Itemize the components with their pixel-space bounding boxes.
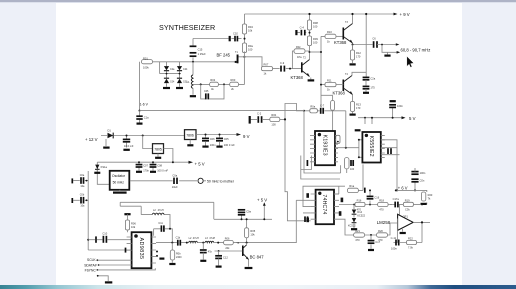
svg-text:Cn7: Cn7 <box>375 240 380 244</box>
wire inner loop with cap <box>301 156 340 180</box>
svg-text:R21: R21 <box>355 229 360 233</box>
svg-text:R01: R01 <box>143 56 148 60</box>
capacitor CB between dividers <box>350 160 355 171</box>
resistor R14 to ground <box>169 243 182 264</box>
capacitor C right electrolytic <box>389 101 403 119</box>
pins left 74HC74 <box>311 194 316 219</box>
mouse cursor <box>407 56 414 67</box>
oscillator module 50 MHz <box>110 171 130 190</box>
pins right K555IE2 <box>381 135 385 157</box>
wire divider input drop <box>345 111 347 148</box>
resistor R20 <box>377 229 388 242</box>
svg-text:47uH: 47uH <box>209 237 215 240</box>
inductor L2 47uH above AD9835 <box>152 209 170 229</box>
capacitor C19 to ground <box>200 243 213 261</box>
capacitor C06 output coupling <box>372 37 399 48</box>
diode D1 <box>108 129 114 139</box>
ground under Q2 emitter <box>308 79 315 81</box>
bottom status bar <box>0 285 516 289</box>
right side panel <box>462 3 516 285</box>
svg-text:10.0 mF: 10.0 mF <box>124 144 134 148</box>
resistor R21 <box>354 229 365 242</box>
wire K555 right loop <box>381 140 400 191</box>
svg-text:100n: 100n <box>210 143 216 147</box>
svg-text:7806: 7806 <box>186 134 194 138</box>
wire BF245 drain to R07 <box>239 51 263 84</box>
pins left AD9835 <box>127 237 132 250</box>
svg-text:OP1: OP1 <box>403 215 409 219</box>
svg-text:1-6 V: 1-6 V <box>140 103 149 107</box>
svg-text:10a: 10a <box>80 185 85 188</box>
capacitor C1b series <box>176 237 181 246</box>
svg-text:R08: R08 <box>313 21 318 25</box>
wire Q4 emitter down <box>352 95 354 102</box>
svg-text:C24: C24 <box>183 68 188 71</box>
resistor R04 <box>242 24 253 34</box>
svg-text:7.0k: 7.0k <box>408 246 414 250</box>
wire op-amp output node <box>413 222 430 242</box>
svg-text:C0b: C0b <box>80 194 85 197</box>
node SDATA <box>84 263 131 267</box>
svg-text:+ 6 V: + 6 V <box>398 185 408 190</box>
svg-text:100: 100 <box>313 40 318 44</box>
ground bar right of AD9835 <box>159 258 164 260</box>
node +6V label <box>396 185 408 191</box>
svg-text:C02: C02 <box>233 31 238 35</box>
capacitor C08 on 5V rail <box>150 161 169 172</box>
wire Q3 collector to rail <box>352 14 354 24</box>
resistor R18 <box>378 198 389 211</box>
wire 74HC74 outer loop <box>303 186 345 206</box>
wire tuning line to divider <box>140 110 305 112</box>
svg-text:R23: R23 <box>428 193 433 197</box>
svg-text:R09: R09 <box>313 37 318 41</box>
node +5V buffer <box>257 197 267 205</box>
node SCLK <box>87 258 132 262</box>
wire RC chain to 74HC74 input <box>251 119 311 220</box>
capacitor C06 on 9V rail <box>202 134 216 148</box>
wire routing loop left of prescaler <box>304 111 341 173</box>
ground below 12V input <box>103 139 109 148</box>
svg-text:BC 847: BC 847 <box>250 254 265 259</box>
svg-text:10a: 10a <box>80 205 85 208</box>
capacitor C16 between R16 R18 <box>367 189 380 205</box>
node +5V right arrow <box>402 116 416 121</box>
resistor R01 <box>142 56 153 69</box>
wire +12V rail <box>101 135 185 137</box>
wire Q3 emitter to Q4 collector <box>352 45 354 51</box>
ground bar on RC chain <box>249 116 251 124</box>
ground under L1 <box>190 88 196 96</box>
wire second output tap <box>381 44 400 54</box>
svg-text:10k: 10k <box>248 28 253 32</box>
wire 5V rail <box>97 161 190 163</box>
wire K193 to K555 bus <box>335 140 362 158</box>
resistor R06v above AD9835 <box>124 214 136 232</box>
svg-text:R13: R13 <box>356 103 361 107</box>
svg-text:C06: C06 <box>210 137 215 141</box>
svg-text:47p: 47p <box>208 250 213 253</box>
svg-text:100 0 mF: 100 0 mF <box>157 168 168 172</box>
svg-text:KC522: KC522 <box>348 225 356 228</box>
node +5V arrow label <box>172 161 205 167</box>
wire PD output chain upper <box>339 205 399 219</box>
capacitor C09 coupling <box>273 61 302 72</box>
capacitor C12 base <box>215 251 228 267</box>
svg-text:5 V: 5 V <box>409 116 416 121</box>
svg-text:KS1a: KS1a <box>101 165 108 169</box>
svg-text:C-4: C-4 <box>300 26 305 30</box>
resistor R03 <box>230 78 239 91</box>
node +9V top label <box>394 12 410 17</box>
svg-text:R0a: R0a <box>310 104 315 108</box>
svg-text:FSYNC: FSYNC <box>85 268 97 272</box>
svg-text:C04: C04 <box>170 80 175 83</box>
svg-text:C6: C6 <box>372 37 376 41</box>
capacitor C07 on 9V rail <box>216 134 235 148</box>
resistor pill to divider <box>331 101 335 111</box>
svg-text:R03: R03 <box>231 78 236 82</box>
svg-text:C2a: C2a <box>370 76 375 80</box>
resistor R0c feedback <box>292 45 309 69</box>
svg-text:470: 470 <box>355 238 360 242</box>
capacitor series bar on lower line <box>125 248 127 253</box>
svg-text:R06: R06 <box>131 222 136 226</box>
resistor R1a bottom <box>347 164 364 192</box>
resistor R11 <box>325 79 343 92</box>
wire divider tap chain <box>285 104 346 120</box>
capacitor C02 gate bypass <box>230 31 246 43</box>
svg-text:C07: C07 <box>143 163 148 167</box>
svg-text:2400: 2400 <box>176 256 182 259</box>
pins right 74HC74 <box>334 194 339 219</box>
capacitor C14 pair <box>363 85 376 92</box>
capacitor C0d row2 <box>72 194 85 208</box>
svg-text:+ 12 V: + 12 V <box>85 137 98 142</box>
varactor diode C04 <box>164 78 175 83</box>
wire Q3 emitter node <box>353 43 373 50</box>
wire 5V buffer rail <box>214 206 272 220</box>
wire +6V line to R23 <box>396 190 427 204</box>
svg-text:C0a: C0a <box>172 173 177 177</box>
junction node on 12V rail <box>126 135 128 137</box>
svg-text:C-9: C-9 <box>280 61 285 65</box>
wire tuning line vertical <box>139 62 141 111</box>
svg-text:C15: C15 <box>198 47 203 51</box>
svg-text:170: 170 <box>356 106 361 110</box>
wire gate line <box>153 61 235 63</box>
wire 5V feed down to 5V rail <box>164 149 173 163</box>
svg-text:R06: R06 <box>225 237 230 240</box>
varactor diode C23 <box>177 66 188 71</box>
svg-text:C08: C08 <box>157 163 162 167</box>
ground under BC847 <box>245 267 253 269</box>
left side panel <box>0 3 56 285</box>
wire 5V rail right section <box>358 117 402 119</box>
svg-text:50 mHz to mother: 50 mHz to mother <box>207 180 235 184</box>
svg-text:74HC74: 74HC74 <box>321 195 327 215</box>
ground under R13 <box>350 112 356 115</box>
svg-text:K193IE3: K193IE3 <box>321 135 327 156</box>
svg-text:C05: C05 <box>224 137 229 141</box>
svg-text:C0n: C0n <box>420 179 425 183</box>
svg-text:C1b: C1b <box>176 237 181 240</box>
svg-text:170n: 170n <box>143 168 149 172</box>
capacitor C15 electrolytic 25uF <box>190 39 206 63</box>
svg-text:R02: R02 <box>210 78 215 82</box>
capacitor at 74HC74 left <box>305 216 308 222</box>
pins right AD9835 <box>151 237 156 263</box>
resistor R19 <box>399 198 423 211</box>
svg-text:Oscilator: Oscilator <box>112 174 126 178</box>
svg-text:100n: 100n <box>391 247 397 251</box>
svg-text:100: 100 <box>350 168 355 171</box>
svg-text:SDATA#: SDATA# <box>84 263 97 267</box>
svg-text:10k: 10k <box>131 225 136 229</box>
varactor diode C24 <box>164 66 175 71</box>
svg-text:1 25uF: 1 25uF <box>198 52 206 56</box>
svg-text:SCLK: SCLK <box>87 258 96 262</box>
ground under R23 <box>421 203 427 205</box>
svg-text:KT368: KT368 <box>291 75 304 80</box>
capacitor C1a on tuning line <box>136 110 149 124</box>
connector circle 50mHz out <box>198 178 206 183</box>
capacitor C04b base bypass <box>296 26 310 45</box>
wire tank output line <box>193 83 244 85</box>
transistor Q3 KT368 <box>334 21 353 45</box>
wire 9V rail after 7806 <box>196 134 239 136</box>
svg-text:R22: R22 <box>408 236 413 240</box>
ground stub bottom left <box>97 275 113 283</box>
capacitor C ref above +6V line <box>411 168 426 191</box>
resistor R05a <box>242 43 253 53</box>
transistor Q5 BC847 <box>236 242 264 267</box>
svg-text:+ 9 V: + 9 V <box>400 12 410 17</box>
ground of 7805 <box>155 154 161 158</box>
svg-text:100: 100 <box>313 24 318 28</box>
svg-text:C3k: C3k <box>405 207 410 211</box>
resistor R13 emitter lower <box>350 102 361 112</box>
wire drop to 7805 <box>143 136 153 149</box>
resistor R09 <box>307 36 318 53</box>
ground bar above K555IE2 <box>355 129 361 131</box>
resistor R10 <box>325 30 343 43</box>
wire PD output chain lower <box>339 219 399 235</box>
capacitor small in loop <box>306 160 308 166</box>
svg-text:C0a: C0a <box>246 210 251 214</box>
svg-text:SYNTHESEIZER: SYNTHESEIZER <box>159 23 215 32</box>
svg-text:C-2: C-2 <box>257 112 262 116</box>
svg-text:R16: R16 <box>357 198 362 202</box>
svg-text:C16: C16 <box>374 195 379 199</box>
svg-text:100: 100 <box>248 47 253 51</box>
svg-text:100 0 mF: 100 0 mF <box>224 143 235 147</box>
capacitor C-7 tap <box>320 103 325 113</box>
wire 5V routing pair to DDS buffer <box>120 202 214 219</box>
capacitor C0c row1 <box>72 174 85 188</box>
inductor L3 47uH in line <box>189 237 199 243</box>
capacitor C-11 feedback <box>391 236 399 251</box>
svg-text:60,8 - 90,7 mHz: 60,8 - 90,7 mHz <box>401 47 431 52</box>
svg-text:50 mHz: 50 mHz <box>113 180 125 184</box>
svg-text:170: 170 <box>356 54 361 58</box>
svg-text:R0b: R0b <box>271 113 276 117</box>
svg-text:7805: 7805 <box>154 148 162 152</box>
svg-text:K555IE2: K555IE2 <box>368 136 374 157</box>
svg-text:BF 245: BF 245 <box>217 52 231 57</box>
svg-text:R0c: R0c <box>296 45 301 49</box>
capacitor C17b <box>390 204 392 206</box>
capacitor C0a 10uF series <box>172 173 178 188</box>
pin tick marks <box>306 193 309 198</box>
IC U5 K555IE2 divider <box>362 132 380 163</box>
svg-text:R0a: R0a <box>248 44 253 48</box>
capacitor C17a input <box>393 197 400 207</box>
transistor Q2 KT368 <box>291 57 310 81</box>
resistor R07 <box>262 63 273 76</box>
resistor R22 feedback <box>407 236 417 249</box>
IC U6 74HC74 <box>316 190 334 225</box>
svg-text:175: 175 <box>370 85 375 89</box>
diode D15 KC522 <box>348 214 356 227</box>
ground bar below oscillator <box>113 190 127 193</box>
ground of 7806 <box>187 140 193 146</box>
wire Q2 collector up <box>310 52 311 79</box>
ground under op-amp <box>400 229 406 233</box>
svg-text:C10: C10 <box>102 231 107 235</box>
ground under varactors <box>163 83 183 88</box>
svg-text:KT368: KT368 <box>333 91 346 96</box>
capacitor C11 <box>154 222 173 243</box>
wire collector branch down <box>321 36 333 131</box>
svg-text:100k: 100k <box>143 66 149 70</box>
pins left K193IE3 <box>310 135 315 161</box>
svg-text:C2a: C2a <box>170 68 175 71</box>
resistor R23 <box>421 192 433 201</box>
capacitor C01 electrolytic 10.0 mF <box>123 136 134 150</box>
svg-text:KC522: KC522 <box>357 214 365 217</box>
wire rail drop to R04 <box>244 14 246 24</box>
wire base network <box>215 250 243 252</box>
svg-text:C17a: C17a <box>393 197 400 201</box>
svg-text:100n: 100n <box>420 171 426 175</box>
varactor diode C03 <box>177 78 188 83</box>
wire node to driver stages <box>310 51 322 53</box>
wire +9V top rail <box>245 13 395 15</box>
top window edge bar <box>0 0 516 2</box>
capacitor C21 electrolytic on 5V <box>238 210 252 221</box>
inductor L4 47uH in line <box>205 237 215 243</box>
svg-text:C-11: C-11 <box>391 236 397 240</box>
resistor R12 emitter <box>350 50 361 60</box>
svg-text:10k: 10k <box>250 233 255 237</box>
svg-text:C0a: C0a <box>80 174 85 177</box>
svg-text:R12: R12 <box>356 51 361 55</box>
wire 74HC74 left feeds <box>296 200 310 213</box>
svg-text:C-7: C-7 <box>320 103 325 107</box>
inductor L1 <box>187 62 193 89</box>
capacitor C07b on 5V rail <box>136 161 150 172</box>
diode D14 KC522 <box>352 204 366 218</box>
wire cap top to bias chain <box>193 38 229 40</box>
wire DDS output line <box>156 242 247 244</box>
svg-text:R04: R04 <box>248 25 253 29</box>
svg-text:470: 470 <box>379 208 384 212</box>
svg-text:R20: R20 <box>378 229 383 233</box>
svg-text:R18: R18 <box>379 198 384 202</box>
svg-text:9 V: 9 V <box>243 134 250 139</box>
svg-text:1Pa: 1Pa <box>297 55 302 59</box>
op-amp U7 LM258 <box>377 214 414 230</box>
IC U1 AD9835 <box>132 232 152 268</box>
resistor R0d <box>270 113 280 126</box>
regulator U2 7806 <box>185 130 197 140</box>
svg-text:100: 100 <box>271 123 276 127</box>
svg-text:47uH: 47uH <box>158 209 164 212</box>
capacitor C10 <box>88 231 131 250</box>
ground under diodes <box>351 223 357 229</box>
resistor R16 <box>355 198 365 211</box>
transistor Q4 KT368 lower <box>333 73 353 96</box>
svg-text:LM258: LM258 <box>377 220 391 225</box>
svg-text:C12: C12 <box>223 255 228 259</box>
capacitor C13 pair <box>363 76 376 85</box>
capacitor C18 to ground <box>368 234 381 250</box>
wire BC847 collector to 74HC74 <box>247 200 297 242</box>
wire feedback path <box>393 219 422 243</box>
svg-text:47uH: 47uH <box>193 237 199 240</box>
wire oscillator output <box>130 180 197 182</box>
svg-text:C1a: C1a <box>144 116 149 120</box>
svg-text:R10: R10 <box>327 30 332 34</box>
regulator U3 7805 <box>153 144 164 154</box>
node +9V arrow <box>237 133 250 139</box>
svg-text:KT368: KT368 <box>334 40 347 45</box>
svg-text:AD9835: AD9835 <box>138 238 144 260</box>
resistor RB between dividers pill <box>344 158 349 174</box>
svg-text:+ 5 V: + 5 V <box>195 161 205 166</box>
svg-text:R11: R11 <box>327 79 332 83</box>
svg-text:R05: R05 <box>250 229 255 233</box>
resistor R15 series <box>224 237 234 250</box>
node FSYNC <box>85 268 156 272</box>
capacitor C-2 <box>257 112 262 123</box>
IC U4 K193IE3 prescaler <box>315 131 335 165</box>
resistor RA between dividers <box>336 135 340 143</box>
svg-text:R1a: R1a <box>349 184 354 188</box>
capacitor in K555 loop <box>388 148 391 154</box>
svg-text:C05: C05 <box>204 90 209 93</box>
transistor Q1 BF245 <box>217 51 246 63</box>
resistor R0a tap <box>310 104 318 112</box>
svg-text:R07: R07 <box>264 63 269 67</box>
capacitor C05 bypass loop <box>201 84 224 99</box>
resistor R02 <box>210 78 219 91</box>
ground under R12 <box>350 60 356 64</box>
svg-text:10uF: 10uF <box>172 185 178 189</box>
ground stub on output <box>384 52 390 55</box>
svg-text:D1: D1 <box>108 129 112 133</box>
svg-text:C11: C11 <box>158 222 163 225</box>
svg-text:+ 5 V: + 5 V <box>257 197 267 202</box>
resistor R05 collector load <box>245 218 256 243</box>
wire crystal cap rows <box>73 171 88 250</box>
pins right K193IE3 <box>335 135 338 161</box>
svg-text:100n: 100n <box>397 104 403 108</box>
resistor R08 top <box>307 13 318 30</box>
zener diode on 5V branch <box>94 162 109 184</box>
svg-text:R19: R19 <box>405 198 410 202</box>
